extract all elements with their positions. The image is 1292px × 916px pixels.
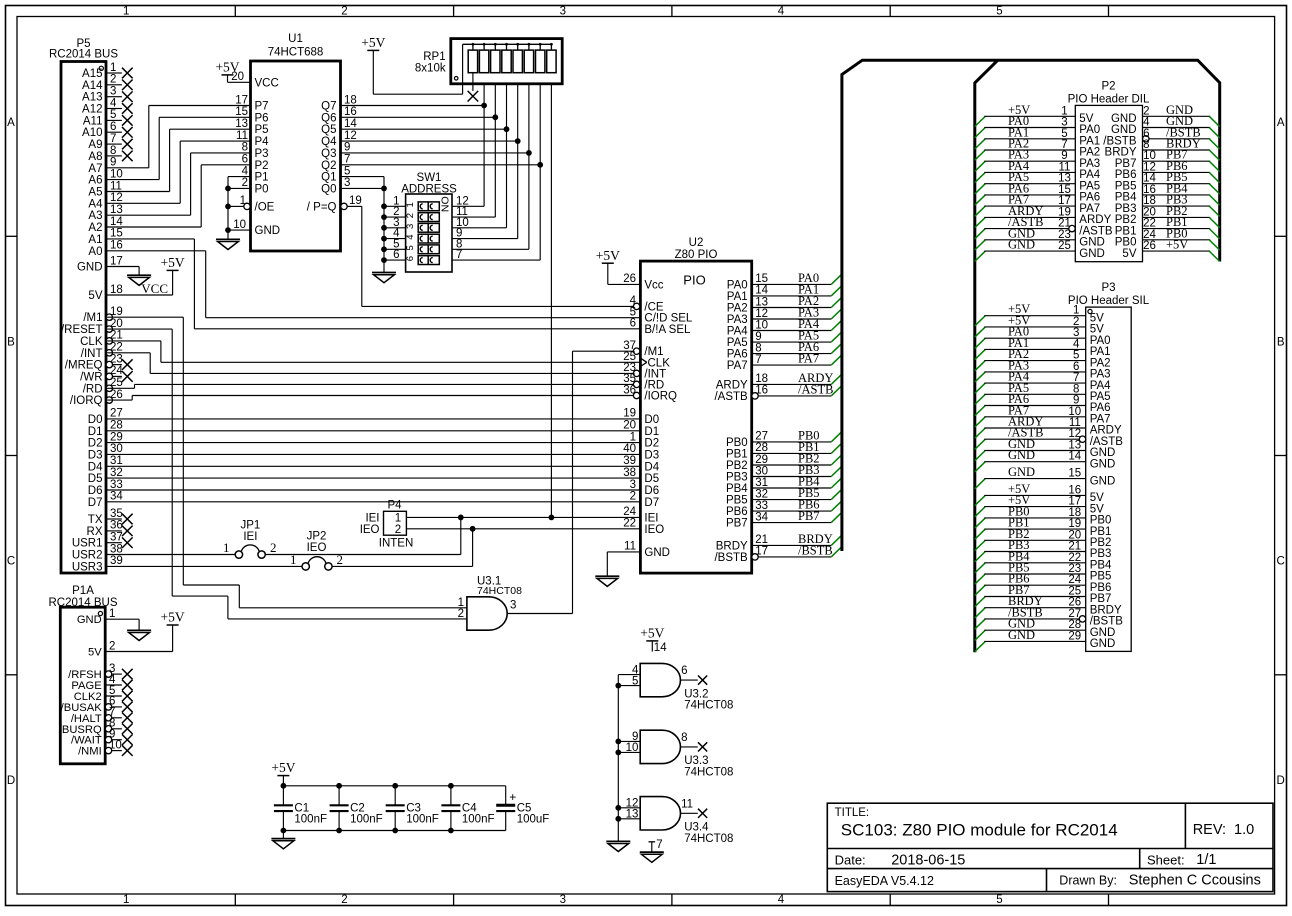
svg-text:PA4: PA4 (727, 326, 748, 338)
svg-text:/OE: /OE (255, 201, 275, 213)
svg-text:PB6: PB6 (1090, 582, 1112, 594)
svg-text:1: 1 (1061, 105, 1067, 117)
svg-text:17: 17 (1068, 496, 1081, 508)
svg-text:PB3: PB3 (1115, 203, 1137, 215)
svg-text:74HCT08: 74HCT08 (684, 833, 733, 845)
svg-text:28: 28 (755, 442, 768, 454)
svg-text:RX: RX (87, 526, 103, 538)
svg-text:25: 25 (1068, 586, 1081, 598)
svg-text:PA1: PA1 (1079, 136, 1100, 148)
svg-text:25: 25 (1058, 240, 1071, 252)
svg-text:+5V: +5V (361, 35, 385, 50)
svg-text:8x10k: 8x10k (415, 63, 446, 75)
svg-text:3: 3 (1061, 117, 1067, 129)
svg-text:GND: GND (1090, 638, 1116, 650)
svg-text:14: 14 (344, 118, 357, 130)
svg-text:+5V: +5V (161, 610, 185, 625)
svg-text:1: 1 (109, 608, 115, 620)
svg-text:PIO Header DIL: PIO Header DIL (1068, 94, 1150, 106)
svg-text:GND: GND (1079, 237, 1105, 249)
svg-text:B/!A SEL: B/!A SEL (644, 324, 691, 336)
svg-text:1: 1 (395, 513, 401, 525)
svg-text:20: 20 (623, 420, 636, 432)
svg-text:1: 1 (110, 62, 116, 74)
svg-text:9: 9 (344, 142, 350, 154)
svg-text:17: 17 (110, 255, 123, 267)
svg-text:4: 4 (1073, 338, 1080, 350)
svg-text:/CE: /CE (644, 301, 664, 313)
svg-text:U2: U2 (689, 237, 704, 249)
svg-text:/BSTB: /BSTB (714, 552, 748, 564)
svg-text:24: 24 (1143, 229, 1156, 241)
svg-text:12: 12 (110, 192, 123, 204)
svg-text:A12: A12 (82, 104, 102, 116)
svg-text:33: 33 (110, 479, 123, 491)
svg-text:PA3: PA3 (1090, 369, 1111, 381)
svg-text:9: 9 (1061, 150, 1067, 162)
svg-text:74HCT08: 74HCT08 (477, 585, 522, 597)
svg-text:P3: P3 (255, 148, 269, 160)
svg-text:SW1: SW1 (417, 172, 442, 184)
svg-text:100nF: 100nF (294, 813, 327, 825)
svg-text:GND: GND (1008, 465, 1035, 479)
svg-text:PB2: PB2 (726, 460, 748, 472)
svg-text:16: 16 (1143, 184, 1156, 196)
svg-text:Q7: Q7 (321, 101, 336, 113)
svg-text:3: 3 (344, 177, 350, 189)
svg-text:IEI: IEI (365, 512, 379, 524)
svg-text:RC2014 BUS: RC2014 BUS (49, 49, 118, 61)
svg-text:5V: 5V (1079, 113, 1093, 125)
svg-text:30: 30 (110, 443, 123, 455)
svg-text:3: 3 (405, 224, 416, 229)
svg-text:/BSTB: /BSTB (1103, 136, 1137, 148)
svg-text:A15: A15 (82, 68, 102, 80)
svg-text:PB1: PB1 (1115, 225, 1137, 237)
svg-text:PA6: PA6 (1090, 402, 1111, 414)
svg-text:2: 2 (405, 213, 416, 218)
svg-text:9: 9 (755, 331, 761, 343)
svg-text:8: 8 (755, 342, 761, 354)
svg-text:P0: P0 (255, 183, 269, 195)
svg-text:13: 13 (110, 204, 123, 216)
svg-text:PA2: PA2 (727, 303, 748, 315)
svg-text:2: 2 (341, 894, 347, 906)
svg-text:11: 11 (681, 798, 693, 810)
svg-text:10: 10 (755, 319, 768, 331)
svg-text:D2: D2 (644, 438, 659, 450)
svg-text:IEO: IEO (307, 542, 327, 554)
svg-text:/ASTB: /ASTB (1079, 225, 1113, 237)
svg-text:D: D (1277, 775, 1285, 787)
svg-text:5V: 5V (1122, 248, 1136, 260)
svg-text:Q0: Q0 (321, 183, 336, 195)
svg-text:GND: GND (1079, 248, 1105, 260)
svg-text:SC103: Z80 PIO module for RC20: SC103: Z80 PIO module for RC2014 (841, 820, 1118, 839)
svg-text:2: 2 (630, 491, 636, 503)
svg-text:GND: GND (1090, 475, 1116, 487)
svg-text:6: 6 (1143, 128, 1149, 140)
svg-text:3: 3 (560, 894, 566, 906)
svg-text:11: 11 (236, 130, 248, 142)
svg-text:18: 18 (344, 94, 357, 106)
svg-text:USR2: USR2 (72, 550, 103, 562)
svg-text:PA0: PA0 (1090, 335, 1111, 347)
svg-text:15: 15 (755, 273, 768, 285)
svg-text:P3: P3 (1101, 282, 1115, 294)
svg-text:PB2: PB2 (1115, 214, 1137, 226)
svg-text:18: 18 (110, 284, 123, 296)
svg-text:6: 6 (405, 256, 416, 261)
svg-text:5V: 5V (88, 647, 102, 659)
svg-text:14: 14 (1143, 173, 1156, 185)
svg-text:IEO: IEO (360, 524, 380, 536)
svg-text:/ASTB: /ASTB (1090, 436, 1124, 448)
svg-text:B: B (1277, 336, 1285, 348)
svg-text:PB7: PB7 (1090, 593, 1112, 605)
svg-text:+5V: +5V (271, 760, 295, 775)
svg-text:Drawn By:: Drawn By: (1059, 874, 1117, 888)
svg-text:PA7: PA7 (727, 360, 748, 372)
svg-text:5V: 5V (1090, 503, 1104, 515)
svg-text:PB5: PB5 (1090, 571, 1112, 583)
svg-text:P2: P2 (255, 160, 269, 172)
svg-text:34: 34 (755, 511, 768, 523)
svg-text:/RD: /RD (83, 383, 103, 395)
svg-text:PB2: PB2 (1090, 537, 1112, 549)
svg-text:40: 40 (623, 443, 636, 455)
svg-text:100nF: 100nF (350, 813, 383, 825)
svg-text:2: 2 (270, 540, 277, 555)
svg-text:RP1: RP1 (423, 51, 445, 63)
svg-text:74HCT08: 74HCT08 (684, 766, 733, 778)
svg-text:/MREQ: /MREQ (65, 360, 103, 372)
svg-text:D7: D7 (88, 497, 103, 509)
svg-text:12: 12 (1143, 161, 1156, 173)
svg-text:11: 11 (1069, 417, 1081, 429)
svg-text:GND: GND (77, 614, 102, 626)
svg-text:/ASTB: /ASTB (798, 382, 833, 396)
svg-text:31: 31 (755, 477, 768, 489)
svg-text:4: 4 (778, 894, 785, 906)
svg-text:GND: GND (1111, 124, 1137, 136)
svg-text:PB3: PB3 (726, 472, 748, 484)
svg-text:1: 1 (223, 540, 230, 555)
svg-text:PB6: PB6 (1115, 169, 1137, 181)
svg-text:GND: GND (1008, 448, 1035, 462)
svg-text:37: 37 (110, 532, 123, 544)
svg-text:D5: D5 (88, 473, 103, 485)
svg-text:20: 20 (1143, 206, 1156, 218)
svg-text:U3.4: U3.4 (684, 822, 709, 834)
svg-text:5: 5 (1073, 350, 1079, 362)
svg-text:4: 4 (778, 6, 785, 18)
svg-text:15: 15 (1068, 468, 1081, 480)
svg-text:PIO Header SIL: PIO Header SIL (1068, 295, 1150, 307)
svg-text:Q3: Q3 (321, 148, 336, 160)
svg-text:PA1: PA1 (1090, 346, 1111, 358)
svg-text:PA0: PA0 (1079, 124, 1100, 136)
svg-text:CLK: CLK (80, 336, 103, 348)
svg-text:19: 19 (1068, 518, 1081, 530)
svg-text:22: 22 (1068, 552, 1081, 564)
svg-text:17: 17 (1058, 195, 1071, 207)
svg-text:A5: A5 (88, 187, 102, 199)
svg-text:31: 31 (110, 455, 123, 467)
svg-text:/BSTB: /BSTB (798, 543, 833, 557)
svg-text:12: 12 (755, 308, 768, 320)
svg-text:29: 29 (1068, 630, 1081, 642)
svg-text:PB1: PB1 (1090, 526, 1112, 538)
svg-text:100nF: 100nF (406, 813, 439, 825)
svg-text:ARDY: ARDY (1090, 425, 1122, 437)
svg-text:PB0: PB0 (1090, 515, 1112, 527)
svg-text:8: 8 (1073, 383, 1079, 395)
svg-text:A7: A7 (88, 163, 102, 175)
svg-text:1: 1 (405, 202, 416, 207)
svg-text:BRDY: BRDY (1090, 604, 1122, 616)
svg-text:PA4: PA4 (1079, 169, 1100, 181)
svg-text:BRDY: BRDY (716, 540, 748, 552)
svg-text:D6: D6 (88, 485, 103, 497)
svg-text:27: 27 (110, 408, 123, 420)
svg-text:GND: GND (1090, 627, 1116, 639)
svg-text:GND: GND (255, 225, 281, 237)
svg-text:D0: D0 (88, 414, 103, 426)
svg-text:/WR: /WR (80, 371, 102, 383)
svg-text:29: 29 (755, 454, 768, 466)
svg-text:16: 16 (110, 240, 123, 252)
svg-text:11: 11 (1059, 161, 1071, 173)
svg-text:10: 10 (233, 219, 246, 231)
svg-text:Date:: Date: (835, 853, 866, 868)
svg-text:GND: GND (644, 547, 670, 559)
svg-text:2: 2 (395, 524, 401, 536)
svg-text:PB5: PB5 (726, 495, 748, 507)
svg-text:39: 39 (623, 455, 636, 467)
svg-text:A9: A9 (88, 139, 102, 151)
svg-text:Stephen C Ccousins: Stephen C Ccousins (1129, 873, 1261, 889)
svg-text:2: 2 (337, 552, 344, 567)
svg-text:4: 4 (1143, 117, 1150, 129)
svg-text:D6: D6 (644, 485, 659, 497)
svg-text:P2: P2 (1101, 81, 1115, 93)
svg-text:12: 12 (1068, 428, 1081, 440)
svg-text:P1: P1 (255, 172, 269, 184)
svg-text:100uF: 100uF (517, 813, 550, 825)
svg-text:1: 1 (290, 552, 297, 567)
svg-text:15: 15 (110, 228, 123, 240)
svg-text:7: 7 (456, 249, 462, 261)
svg-text:PA5: PA5 (727, 337, 748, 349)
svg-text:27: 27 (1068, 608, 1081, 620)
svg-text:D0: D0 (644, 414, 659, 426)
svg-text:A13: A13 (82, 92, 102, 104)
svg-text:7: 7 (1061, 139, 1067, 151)
svg-text:PB5: PB5 (1115, 180, 1137, 192)
svg-text:RC2014 BUS: RC2014 BUS (48, 597, 117, 609)
svg-text:5: 5 (1061, 128, 1067, 140)
svg-text:PA2: PA2 (1090, 357, 1111, 369)
svg-text:36: 36 (110, 520, 123, 532)
svg-text:GND: GND (77, 262, 103, 274)
svg-text:9: 9 (110, 157, 116, 169)
svg-text:Sheet:: Sheet: (1147, 853, 1185, 868)
svg-text:12: 12 (344, 130, 357, 142)
svg-text:PB0: PB0 (726, 437, 748, 449)
svg-text:22: 22 (1143, 218, 1156, 230)
svg-text:PA0: PA0 (727, 279, 748, 291)
svg-text:PB0: PB0 (1115, 237, 1137, 249)
svg-text:GND: GND (1008, 628, 1035, 642)
svg-text:13: 13 (1068, 440, 1081, 452)
svg-text:PB7: PB7 (726, 518, 748, 530)
svg-text:1: 1 (123, 6, 129, 18)
svg-text:ON: ON (439, 196, 451, 212)
svg-text:20: 20 (231, 71, 244, 83)
svg-text:3: 3 (110, 86, 116, 98)
svg-text:Q5: Q5 (321, 124, 336, 136)
svg-text:Q2: Q2 (321, 160, 336, 172)
svg-text:+5V: +5V (596, 248, 620, 263)
svg-text:D1: D1 (644, 426, 659, 438)
svg-text:TITLE:: TITLE: (835, 807, 870, 819)
svg-text:3: 3 (630, 479, 636, 491)
svg-text:26: 26 (1068, 597, 1081, 609)
svg-text:10: 10 (110, 168, 123, 180)
svg-text:PIO: PIO (683, 273, 705, 288)
svg-text:Q1: Q1 (321, 172, 336, 184)
svg-text:3: 3 (510, 600, 516, 612)
svg-text:21: 21 (1058, 218, 1071, 230)
svg-text:/INT: /INT (81, 348, 103, 360)
svg-text:7: 7 (110, 133, 116, 145)
svg-text:2: 2 (110, 74, 116, 86)
svg-text:4: 4 (110, 97, 117, 109)
svg-text:A8: A8 (88, 151, 102, 163)
svg-text:D5: D5 (644, 473, 659, 485)
svg-text:38: 38 (110, 543, 123, 555)
svg-text:100nF: 100nF (462, 813, 495, 825)
svg-text:A14: A14 (82, 80, 103, 92)
svg-text:U3.2: U3.2 (684, 688, 708, 700)
svg-text:A10: A10 (82, 127, 102, 139)
svg-text:6: 6 (242, 154, 248, 166)
svg-text:BRDY: BRDY (1105, 147, 1137, 159)
svg-text:Q4: Q4 (321, 136, 337, 148)
svg-text:PA2: PA2 (1079, 147, 1100, 159)
svg-text:24: 24 (1068, 574, 1081, 586)
svg-text:P4: P4 (387, 500, 402, 512)
svg-text:PB1: PB1 (726, 448, 748, 460)
svg-text:5: 5 (996, 894, 1002, 906)
svg-text:IEO: IEO (644, 524, 664, 536)
svg-text:PA5: PA5 (1090, 391, 1111, 403)
svg-text:1/1: 1/1 (1196, 852, 1216, 868)
svg-text:2: 2 (109, 640, 115, 652)
svg-text:20: 20 (1068, 529, 1081, 541)
svg-text:PB7: PB7 (1115, 158, 1137, 170)
svg-text:1: 1 (630, 431, 636, 443)
svg-text:26: 26 (1143, 240, 1156, 252)
svg-text:A2: A2 (88, 222, 102, 234)
svg-text:8: 8 (242, 142, 248, 154)
svg-text:D2: D2 (88, 438, 103, 450)
svg-text:5V: 5V (88, 290, 102, 302)
svg-text:ADDRESS: ADDRESS (401, 184, 457, 196)
svg-text:32: 32 (755, 488, 768, 500)
svg-text:18: 18 (1143, 195, 1156, 207)
svg-text:ARDY: ARDY (1079, 214, 1111, 226)
svg-text:21: 21 (755, 534, 768, 546)
svg-text:P5: P5 (255, 124, 269, 136)
svg-text:23: 23 (1068, 563, 1081, 575)
svg-text:5V: 5V (1090, 492, 1104, 504)
svg-text:D: D (7, 775, 15, 787)
svg-text:JP1: JP1 (240, 520, 260, 532)
svg-text:/IORQ: /IORQ (70, 395, 103, 407)
svg-text:2: 2 (341, 6, 347, 18)
svg-text:28: 28 (110, 420, 123, 432)
svg-text:/ P=Q: / P=Q (307, 201, 337, 213)
svg-text:19: 19 (349, 195, 362, 207)
svg-text:2: 2 (458, 608, 464, 620)
svg-text:A4: A4 (88, 198, 103, 210)
svg-text:PA7: PA7 (1079, 203, 1100, 215)
svg-text:6: 6 (1073, 361, 1079, 373)
svg-text:PA7: PA7 (798, 352, 819, 366)
svg-text:5V: 5V (1090, 324, 1104, 336)
svg-text:U1: U1 (288, 33, 303, 45)
svg-text:5: 5 (632, 675, 638, 687)
svg-text:6: 6 (630, 318, 636, 330)
svg-text:33: 33 (755, 500, 768, 512)
svg-text:PA6: PA6 (1079, 192, 1100, 204)
svg-text:VCC: VCC (141, 281, 168, 296)
svg-text:A3: A3 (88, 210, 102, 222)
svg-text:REV: 1.0: REV: 1.0 (1193, 822, 1255, 838)
svg-text:PA7: PA7 (1090, 414, 1111, 426)
svg-text:2: 2 (242, 177, 248, 189)
svg-text:D4: D4 (88, 461, 103, 473)
svg-text:3: 3 (560, 6, 566, 18)
svg-text:1: 1 (1073, 305, 1079, 317)
svg-text:PA6: PA6 (727, 349, 748, 361)
svg-text:TX: TX (88, 514, 103, 526)
svg-text:2018-06-15: 2018-06-15 (891, 853, 965, 869)
svg-text:PB3: PB3 (1090, 548, 1112, 560)
svg-text:+5V: +5V (161, 255, 185, 270)
svg-text:+5V: +5V (640, 626, 664, 641)
svg-text:+: + (509, 790, 516, 804)
svg-text:26: 26 (623, 273, 636, 285)
svg-text:32: 32 (110, 467, 123, 479)
svg-text:28: 28 (1068, 619, 1081, 631)
svg-text:22: 22 (623, 518, 636, 530)
svg-text:Vcc: Vcc (644, 279, 663, 291)
svg-text:5: 5 (996, 6, 1002, 18)
svg-text:39: 39 (110, 555, 123, 567)
svg-text:1: 1 (123, 894, 129, 906)
svg-text:11: 11 (110, 180, 122, 192)
svg-text:21: 21 (1068, 541, 1081, 553)
svg-text:D1: D1 (88, 426, 103, 438)
svg-text:/IORQ: /IORQ (644, 391, 677, 403)
svg-text:A0: A0 (88, 246, 102, 258)
svg-text:JP2: JP2 (307, 531, 327, 543)
svg-text:15: 15 (1058, 184, 1071, 196)
svg-text:13: 13 (626, 809, 639, 821)
